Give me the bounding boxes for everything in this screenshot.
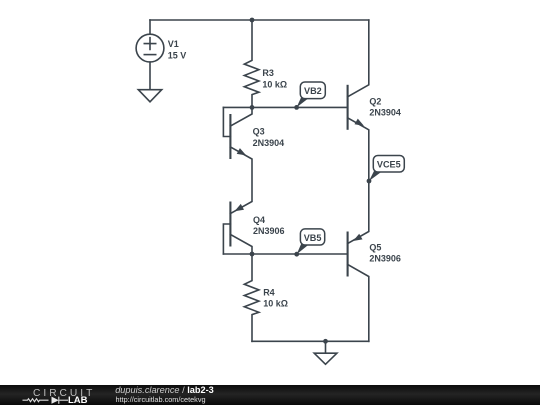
- svg-text:2N3904: 2N3904: [253, 138, 285, 148]
- svg-text:2N3906: 2N3906: [253, 226, 285, 236]
- svg-text:VB2: VB2: [304, 86, 322, 96]
- svg-text:2N3904: 2N3904: [369, 108, 401, 118]
- svg-text:LAB: LAB: [68, 395, 88, 405]
- svg-text:15 V: 15 V: [168, 50, 187, 60]
- svg-text:Q4: Q4: [253, 215, 265, 225]
- svg-text:VB5: VB5: [304, 233, 322, 243]
- svg-text:http://circuitlab.com/cetekvg: http://circuitlab.com/cetekvg: [116, 395, 206, 404]
- svg-text:VCE5: VCE5: [377, 160, 401, 170]
- svg-text:Q2: Q2: [369, 97, 381, 107]
- svg-text:2N3906: 2N3906: [369, 254, 401, 264]
- svg-text:dupuis.clarence / lab2-3: dupuis.clarence / lab2-3: [115, 385, 214, 395]
- svg-text:R3: R3: [262, 68, 274, 78]
- svg-text:V1: V1: [168, 39, 179, 49]
- svg-text:10 kΩ: 10 kΩ: [262, 80, 287, 90]
- svg-text:R4: R4: [263, 288, 275, 298]
- svg-text:Q3: Q3: [253, 127, 265, 137]
- svg-text:10 kΩ: 10 kΩ: [263, 299, 288, 309]
- svg-text:Q5: Q5: [369, 242, 381, 252]
